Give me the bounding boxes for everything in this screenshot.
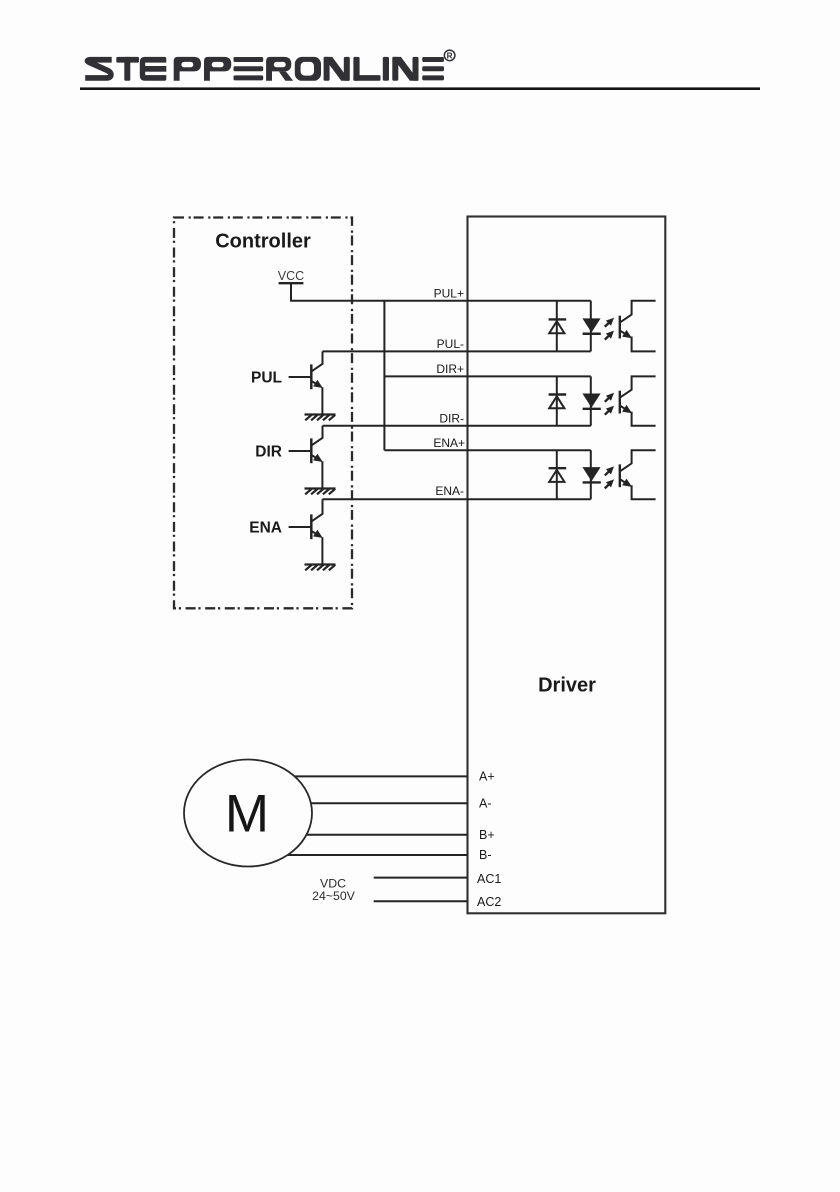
svg-text:DIR-: DIR- bbox=[439, 412, 464, 426]
svg-text:AC2: AC2 bbox=[477, 895, 501, 909]
svg-text:ENA-: ENA- bbox=[435, 484, 464, 498]
svg-text:A-: A- bbox=[479, 797, 492, 811]
svg-text:VCC: VCC bbox=[278, 269, 304, 283]
svg-text:ENA: ENA bbox=[249, 520, 282, 537]
svg-text:AC1: AC1 bbox=[477, 872, 501, 886]
svg-text:PUL+: PUL+ bbox=[434, 287, 464, 301]
svg-text:B+: B+ bbox=[479, 828, 495, 842]
svg-text:B-: B- bbox=[479, 848, 492, 862]
svg-text:PUL: PUL bbox=[251, 370, 282, 387]
svg-text:DIR+: DIR+ bbox=[436, 362, 464, 376]
svg-text:A+: A+ bbox=[479, 770, 495, 784]
svg-text:Controller: Controller bbox=[215, 231, 311, 253]
svg-text:M: M bbox=[225, 785, 269, 844]
svg-text:R: R bbox=[447, 52, 453, 61]
svg-text:DIR: DIR bbox=[255, 444, 282, 461]
svg-text:Driver: Driver bbox=[538, 675, 596, 697]
svg-text:PUL-: PUL- bbox=[437, 337, 464, 351]
svg-text:ENA+: ENA+ bbox=[433, 436, 465, 450]
svg-text:24~50V: 24~50V bbox=[312, 889, 356, 903]
